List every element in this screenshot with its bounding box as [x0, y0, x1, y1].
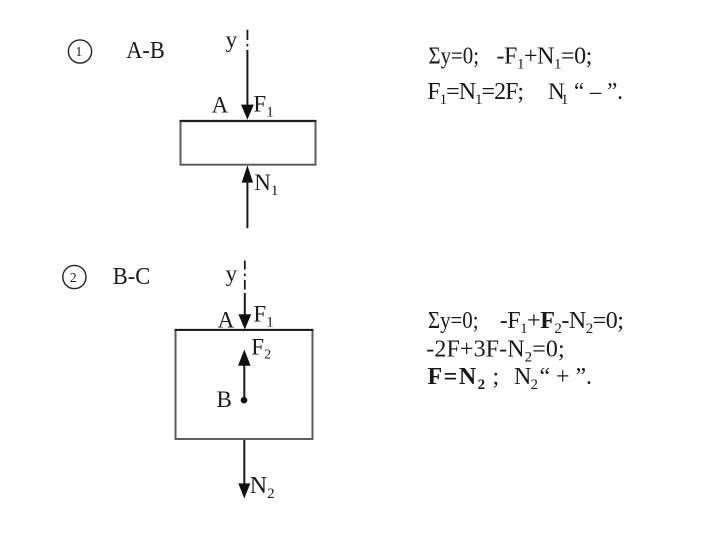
equations block 1 line 2	[427, 79, 623, 108]
svg-text:-2F+3F-N2=0;: -2F+3F-N2=0;	[426, 337, 564, 366]
force arrow F1 (diagram 1)	[241, 50, 254, 120]
reaction arrow N1 (diagram 1)	[242, 165, 253, 228]
svg-text:1: 1	[561, 92, 569, 108]
y axis dash-dot line (diagram 2)	[244, 261, 246, 290]
equations block 2 line 1	[428, 308, 623, 337]
svg-text:y: y	[226, 261, 238, 286]
svg-text:A-B: A-B	[126, 38, 165, 64]
svg-text:-F1+N1=0;: -F1+N1=0;	[497, 44, 592, 73]
svg-text:Σy=0;: Σy=0;	[428, 308, 479, 334]
section marker 2 (circled 2)	[63, 265, 86, 288]
svg-text:y: y	[226, 27, 238, 52]
bar section A-B rectangle	[180, 121, 317, 165]
svg-text:-F1+F2-N2=0;: -F1+F2-N2=0;	[500, 308, 624, 337]
section marker 1 (circled 1)	[68, 40, 91, 63]
svg-text:“ + ”.: “ + ”.	[540, 364, 593, 390]
reaction arrow N2 (diagram 2)	[238, 440, 250, 499]
svg-text:B: B	[217, 387, 232, 412]
internal force arrow F2 (diagram 2)	[238, 350, 251, 399]
equations block 1 line 1	[429, 44, 592, 73]
svg-text:;: ;	[493, 364, 500, 390]
svg-text:Σy=0;: Σy=0;	[429, 44, 480, 70]
svg-text:“ – ”.: “ – ”.	[574, 79, 623, 105]
svg-text:A: A	[218, 307, 235, 332]
point B dot	[241, 397, 248, 404]
y axis dash-dot line (diagram 1)	[246, 30, 248, 47]
bar section B-C rectangle	[175, 330, 314, 439]
svg-text:1: 1	[76, 44, 83, 59]
force arrow F1 (diagram 2)	[238, 293, 251, 330]
svg-text:2: 2	[70, 270, 77, 285]
equations block 2 line 3	[428, 364, 593, 393]
svg-text:B-C: B-C	[113, 264, 151, 290]
svg-text:A: A	[212, 92, 229, 117]
